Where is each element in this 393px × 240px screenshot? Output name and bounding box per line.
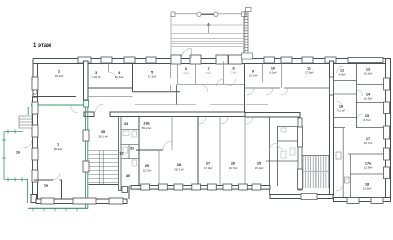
door arc room1 top: [71, 106, 79, 114]
svg-text:30,4м²: 30,4м²: [55, 74, 64, 78]
svg-text:9,1м²: 9,1м²: [270, 71, 277, 75]
portico hall protrusion top center: [171, 14, 244, 55]
wc fixtures right column: [336, 152, 349, 183]
door arc corridor to room35: [96, 104, 104, 112]
north wall left corner down to room2 left wall: [33, 59, 38, 98]
green room 1: right wall (double): [86, 101, 88, 209]
rooms 9/10 bottom walls and dividers: [245, 87, 281, 89]
portico middle chord bar: [201, 13, 213, 15]
column circle top-left of room1: [33, 90, 37, 94]
window in room2 left wall: [32, 77, 38, 90]
south wall middle-right section under stair: [270, 194, 333, 200]
cluster inner walls (rooms 34/31/32/30): [121, 130, 139, 159]
portico end posts: [171, 12, 246, 17]
door arc 23a/29: [163, 141, 172, 150]
windows south wall main section: [141, 184, 261, 190]
svg-text:23а: 23а: [143, 122, 150, 126]
toilet fixtures middle: [281, 128, 295, 158]
wall between 14 and 15: [357, 102, 389, 104]
svg-text:16,5м²: 16,5м²: [364, 97, 373, 101]
svg-text:36,1 м²: 36,1 м²: [98, 135, 107, 139]
svg-text:1: 1: [57, 143, 59, 147]
green left segment along SW corner: [27, 179, 29, 203]
door arc room 1a: [53, 173, 60, 180]
right column service corridor wall: [342, 128, 344, 199]
svg-text:2: 2: [58, 70, 60, 74]
thick wall x330 full height: [330, 61, 334, 195]
door arcs mid hall: [270, 143, 283, 150]
green stub above room1 top-left: [27, 107, 29, 115]
wall between rooms 3 and 4: [108, 64, 110, 73]
svg-text:7,3м²: 7,3м²: [231, 72, 237, 75]
rooms 3/4 bottom wall: [88, 87, 133, 89]
portico entrance door arc: [181, 49, 191, 59]
wall between 17 and 17a: [348, 153, 388, 155]
svg-text:28,3 м²: 28,3 м²: [174, 168, 183, 172]
svg-text:29: 29: [145, 164, 149, 168]
green room 1: top wall: [31, 104, 86, 106]
wall right of 23a: [171, 117, 173, 151]
svg-text:17,2м²: 17,2м²: [204, 166, 213, 170]
north exterior wall band: [33, 59, 388, 64]
svg-text:12,9м²: 12,9м²: [364, 166, 373, 170]
green ticks on bottom line: [33, 208, 77, 211]
door arcs right column rooms: [337, 67, 363, 121]
door arcs rooms 27/26/25: [199, 117, 253, 124]
corridor north wall under rooms 3/4: [88, 96, 133, 98]
door arcs right column service rooms: [336, 177, 350, 191]
door arc room 11: [281, 88, 288, 95]
stair shaft west wall with borrowed lights: [298, 118, 303, 190]
staircase room 35: [89, 151, 119, 185]
window in thick wall x330: [330, 77, 334, 95]
svg-text:8,7м²: 8,7м²: [364, 118, 371, 122]
windows on green right wall of room 1: [83, 130, 89, 172]
svg-text:15,2м²: 15,2м²: [255, 166, 264, 170]
svg-text:26: 26: [231, 162, 235, 166]
wall between rooms 7 and 8: [223, 62, 225, 85]
east exterior wall with windows: [386, 59, 391, 201]
svg-text:4,4м²: 4,4м²: [339, 73, 346, 77]
green room 1: bottom line: [28, 207, 88, 209]
wall between rooms 4 and 5: [132, 64, 134, 93]
south wall main section: [128, 186, 130, 199]
staircase right (two flights, vertical treads): [303, 156, 330, 189]
stair top boundary: [302, 155, 330, 157]
svg-text:6: 6: [185, 67, 187, 71]
door arcs rooms 9/10: [247, 88, 273, 95]
door arc room 3/4: [109, 72, 117, 80]
middle hall walls / toilet cluster right: [266, 126, 298, 186]
room 2 bottom wall: [33, 96, 76, 98]
svg-text:16,2м²: 16,2м²: [364, 72, 373, 76]
wall between 17a and 18: [351, 173, 389, 175]
wall between rooms 5 and 6 with door: [170, 64, 172, 93]
room 1a walls: [34, 180, 62, 199]
entrance steps at porch top: [19, 116, 32, 128]
long wall right of room 8 down through corridor: [244, 64, 246, 116]
svg-text:60,4м²: 60,4м²: [54, 147, 63, 151]
svg-text:6,9м²: 6,9м²: [206, 72, 212, 75]
wall between rooms 6 and 7: [195, 64, 197, 85]
room 5 bottom wall: [133, 91, 181, 93]
wall between 26 and 25: [244, 117, 246, 186]
cluster right wall: [138, 117, 140, 191]
svg-text:30: 30: [126, 174, 130, 178]
room1/porch left exterior wall with windows: [33, 97, 38, 202]
small box at stair SE bottom: [122, 187, 128, 193]
wall below room 12: [334, 80, 357, 82]
door arcs rooms 6/7 into corridor: [200, 85, 208, 93]
wall between 15 and 17: [334, 127, 389, 129]
corridor wall stub x176: [176, 85, 178, 105]
south wall right column: [334, 198, 391, 202]
svg-text:17,2м²: 17,2м²: [148, 75, 157, 79]
wall west of room 6: [177, 64, 179, 85]
svg-text:4,1м²: 4,1м²: [183, 72, 189, 75]
windows on north wall: [78, 57, 383, 63]
svg-text:5,1 м²: 5,1 м²: [337, 109, 345, 113]
portico up arrow: [207, 23, 210, 33]
svg-text:8: 8: [232, 67, 234, 71]
svg-text:27: 27: [206, 162, 210, 166]
wall between 25 and middle hall: [269, 117, 271, 196]
svg-text:28: 28: [177, 163, 181, 167]
porch 16 green outline with ticks: [2, 130, 28, 182]
portico columns (circles): [197, 12, 218, 16]
cluster fixtures: [123, 131, 137, 166]
green column box at top-right of room 1: [84, 101, 89, 108]
wall below room 16r: [334, 117, 357, 119]
svg-text:1 этаж: 1 этаж: [33, 43, 52, 49]
thick wall between room2 and room3: [84, 61, 89, 100]
wall between 27 and 26: [219, 117, 221, 186]
tall hall windows under portico: [171, 55, 242, 64]
wall between 10 and 11: [281, 64, 283, 89]
wall between 9 and 10: [262, 64, 264, 83]
svg-text:35: 35: [101, 130, 105, 134]
svg-text:32: 32: [119, 152, 123, 156]
glazed partition long bar (top wall of south rooms): [110, 112, 300, 117]
svg-text:16: 16: [16, 151, 20, 155]
exterior fire ladder right of portico: [242, 8, 253, 60]
svg-text:7,28 м²: 7,28 м²: [91, 75, 100, 79]
svg-text:25: 25: [257, 162, 261, 166]
rooms 6/7/8 bottom wall: [178, 84, 245, 86]
wall right of room 35 / cluster left wall: [119, 117, 122, 191]
wall between 28 and 27: [197, 117, 199, 186]
wall between 13 and 14: [357, 84, 389, 86]
wall between 29 and 28: [158, 150, 160, 186]
svg-text:10,7м²: 10,7м²: [249, 74, 258, 78]
svg-text:59,2 м²: 59,2 м²: [142, 126, 151, 130]
stair 35 bottom landing wall: [89, 184, 119, 186]
wall stub left of glazed bar: [84, 112, 94, 117]
svg-text:13,5м²: 13,5м²: [363, 187, 372, 191]
lobby divider below room 12: [334, 93, 357, 95]
svg-text:16,4м²: 16,4м²: [115, 75, 124, 79]
wall between 23a and 29: [136, 149, 163, 151]
svg-text:17,0м²: 17,0м²: [305, 71, 314, 75]
svg-text:7: 7: [207, 67, 209, 71]
room labels: [16, 67, 372, 191]
wall west of 17a/18: [350, 154, 352, 199]
svg-text:22,7м²: 22,7м²: [143, 169, 152, 173]
portico ramp lines: [172, 25, 244, 46]
svg-text:31: 31: [130, 147, 134, 151]
room 11 bottom wall: [284, 87, 329, 89]
corridor south thin line: [135, 104, 268, 106]
door arc from porch into room 1: [24, 140, 32, 148]
svg-text:16,7м²: 16,7м²: [229, 166, 238, 170]
right column: divider between small and large rooms: [356, 64, 358, 129]
windows in south wall left: [41, 198, 123, 204]
svg-text:15,7м²: 15,7м²: [364, 141, 373, 145]
south wall left section (rooms 1/1a): [31, 195, 127, 204]
